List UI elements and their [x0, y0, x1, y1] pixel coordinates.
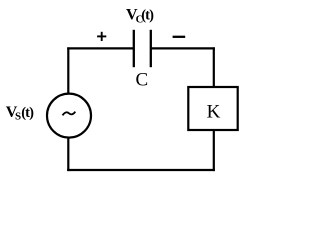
- polarity minus sign: [173, 36, 186, 38]
- svg-text:(t): (t): [141, 7, 154, 23]
- wire bottom: [67, 169, 215, 171]
- capacitor C left plate: [133, 30, 135, 67]
- voltage source VS circle: [47, 94, 91, 138]
- wire top-left segment: [67, 47, 134, 49]
- polarity plus sign: [97, 32, 106, 41]
- wire right lower: [213, 130, 215, 172]
- capacitor C right plate: [150, 30, 152, 67]
- wire top-right segment: [151, 47, 215, 49]
- wire left upper: [67, 47, 69, 94]
- voltage source tilde: [63, 112, 76, 116]
- wire left lower: [67, 137, 69, 171]
- svg-text:K: K: [207, 102, 221, 123]
- wire right upper: [213, 47, 215, 87]
- svg-text:C: C: [135, 70, 148, 91]
- svg-text:(t): (t): [21, 105, 34, 121]
- block K box: [188, 87, 237, 130]
